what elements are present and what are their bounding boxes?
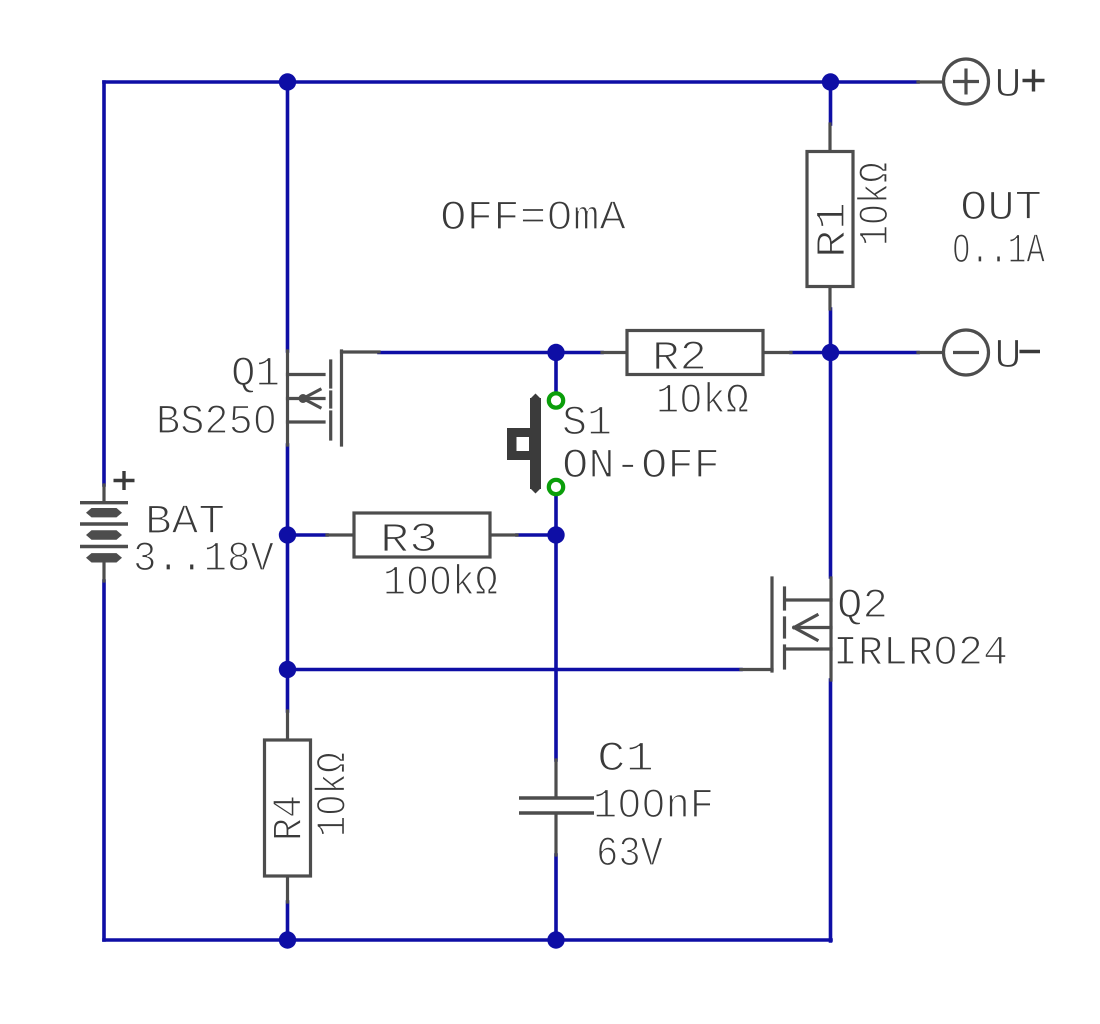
svg-text:3..18V: 3..18V [133,536,274,583]
svg-text:OFF=0mA: OFF=0mA [440,195,626,242]
svg-text:U: U [994,333,1022,380]
svg-text:BS250: BS250 [156,399,277,446]
svg-text:S1: S1 [562,400,612,447]
svg-text:R4: R4 [267,795,314,841]
svg-text:C1: C1 [597,736,654,783]
svg-text:Q2: Q2 [837,583,888,630]
svg-text:U: U [994,62,1022,109]
svg-text:OUT: OUT [960,185,1042,232]
svg-text:10kΩ: 10kΩ [311,752,358,837]
svg-text:ON-OFF: ON-OFF [562,443,720,490]
svg-text:10kΩ: 10kΩ [853,162,900,246]
svg-text:IRLR024: IRLR024 [833,630,1008,677]
svg-text:Q1: Q1 [231,351,280,398]
svg-text:0..1A: 0..1A [952,228,1045,275]
svg-text:R1: R1 [810,202,857,258]
svg-text:10kΩ: 10kΩ [656,378,749,425]
svg-text:R3: R3 [380,517,438,564]
svg-text:63V: 63V [596,831,663,878]
svg-text:R2: R2 [652,335,707,382]
